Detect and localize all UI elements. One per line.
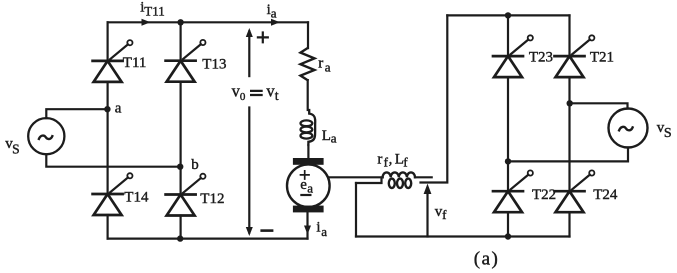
- wire: ac right top connection: [570, 103, 628, 108]
- wire: field coil right stub: [415, 176, 432, 178]
- svg-text:L: L: [322, 128, 331, 144]
- svg-text:T23: T23: [529, 49, 553, 65]
- label vS left: [5, 136, 19, 157]
- label - (bottom of v0): [262, 229, 272, 232]
- svg-text:S: S: [664, 126, 672, 141]
- label - inside motor: [301, 194, 310, 196]
- wire: ac left top to node a: [46, 109, 107, 118]
- thyristor T23: [493, 35, 533, 77]
- node b junction dot: [177, 164, 183, 170]
- ac source vS left: [28, 118, 64, 154]
- equals sign of v0 = vt: [251, 91, 262, 95]
- thyristor T14: [93, 173, 133, 215]
- wire: left bridge bottom rail: [108, 238, 308, 240]
- wire: ac left bottom to node b: [46, 154, 180, 166]
- wire: armature branch top (rail corner down to resistor): [307, 22, 309, 48]
- wire: left leg2 lower: [180, 216, 182, 239]
- current arrow iT11 on top rail: [142, 19, 151, 26]
- wire: right leg1 middle: [507, 77, 509, 191]
- svg-text:(a): (a): [474, 249, 500, 270]
- wire: inductor to motor brush: [307, 145, 309, 158]
- wire: right leg2 lower: [568, 212, 570, 236]
- thyristor T11: [93, 40, 133, 82]
- wire: field left riser down: [355, 183, 357, 237]
- node a junction dot: [104, 106, 110, 112]
- current arrow ia bottom (down): [304, 226, 311, 235]
- motor brush bar top: [293, 158, 324, 165]
- svg-text:i: i: [316, 219, 320, 235]
- svg-text:a: a: [331, 130, 337, 145]
- wire: left leg1 upper (to T11): [106, 22, 108, 61]
- svg-text:T11: T11: [123, 55, 147, 71]
- motor brush bar bottom: [293, 206, 324, 213]
- label + (top of v0): [258, 33, 268, 43]
- wire: right leg1 upper (to T23): [507, 15, 509, 56]
- label ea inside motor: [300, 177, 313, 195]
- svg-text:T21: T21: [590, 49, 614, 65]
- resistor ra: [301, 48, 315, 80]
- svg-text:T13: T13: [202, 57, 226, 73]
- field inductor rf,Lf: [383, 172, 415, 188]
- node: leg2 top rail junction dot: [177, 19, 183, 25]
- label ia top: [267, 2, 277, 21]
- svg-text:a: a: [115, 101, 122, 117]
- ac source vS right: [609, 109, 648, 148]
- wire: right leg2 upper (to T21): [568, 15, 570, 56]
- node: leg2 bottom rail junction dot: [177, 235, 183, 241]
- svg-text:T12: T12: [200, 191, 224, 207]
- voltage arrow vf (up): [426, 191, 428, 237]
- label rf, Lf: [377, 152, 408, 170]
- wire: right bridge top rail: [447, 14, 569, 16]
- wire: left leg1 lower: [106, 215, 108, 239]
- wire: field bottom rail: [356, 235, 570, 237]
- voltage arrow v0=vt lower (arrow down): [248, 108, 250, 233]
- wire: motor right terminal to field coil: [330, 176, 383, 178]
- svg-text:a: a: [271, 5, 277, 20]
- node: T23 leg top junction dot: [505, 12, 511, 18]
- label (a) caption: [474, 249, 500, 270]
- label ia bottom: [316, 219, 327, 239]
- thyristor T12: [166, 174, 206, 216]
- thyristor T24: [555, 170, 595, 212]
- thyristor T13: [166, 40, 206, 82]
- wire: ac right bottom connection: [508, 148, 628, 162]
- wire: left leg2 upper (to T13): [180, 22, 182, 60]
- label v0: [232, 81, 246, 103]
- svg-text:S: S: [12, 141, 20, 156]
- thyristor T21: [555, 35, 595, 77]
- wire: right leg1 lower: [507, 212, 509, 236]
- label vt: [266, 81, 278, 104]
- label + inside motor: [301, 171, 310, 179]
- current arrow ia on top rail: [271, 19, 280, 26]
- label iT11: [140, 0, 164, 19]
- wire: field lower-left segment: [356, 178, 382, 184]
- thyristor T22: [493, 170, 533, 212]
- svg-text:t: t: [275, 89, 279, 104]
- motor armature circle ea: [287, 164, 330, 207]
- wire: field lower-right segment to right riser: [421, 15, 448, 182]
- label ra: [318, 56, 330, 75]
- wire: left leg1 middle (T11 to T14): [106, 82, 108, 194]
- node: right leg1 ac junction dot: [505, 158, 511, 164]
- svg-text:T14: T14: [124, 190, 149, 206]
- node: right leg1 bottom junction dot: [505, 233, 511, 239]
- wire: between resistor and inductor: [307, 80, 309, 110]
- svg-text:,: ,: [389, 152, 393, 168]
- voltage arrow v0=vt upper (arrow up): [248, 32, 250, 77]
- label La: [322, 128, 337, 146]
- wire: left leg2 middle (T13 to T12): [180, 82, 182, 195]
- svg-text:f: f: [403, 155, 408, 170]
- label vS right: [657, 120, 672, 141]
- svg-text:f: f: [442, 207, 447, 222]
- wire: right leg2 middle: [568, 77, 570, 191]
- svg-text:a: a: [321, 224, 327, 239]
- label vf: [435, 204, 447, 222]
- svg-text:a: a: [307, 180, 313, 195]
- svg-text:b: b: [191, 157, 199, 173]
- svg-text:r: r: [377, 152, 382, 168]
- svg-text:T11: T11: [144, 4, 164, 19]
- svg-text:T24: T24: [593, 187, 618, 203]
- tilde of right ac source: [619, 127, 633, 130]
- svg-text:0: 0: [240, 91, 246, 103]
- svg-text:a: a: [325, 60, 331, 75]
- wire: left bridge top rail: [108, 21, 308, 23]
- svg-text:r: r: [318, 56, 323, 72]
- tilde of left ac source: [39, 136, 52, 139]
- svg-text:T22: T22: [532, 187, 556, 203]
- wire: motor to bottom rail: [306, 212, 308, 238]
- inductor La: [301, 110, 316, 145]
- node: right leg2 ac junction dot: [567, 100, 573, 106]
